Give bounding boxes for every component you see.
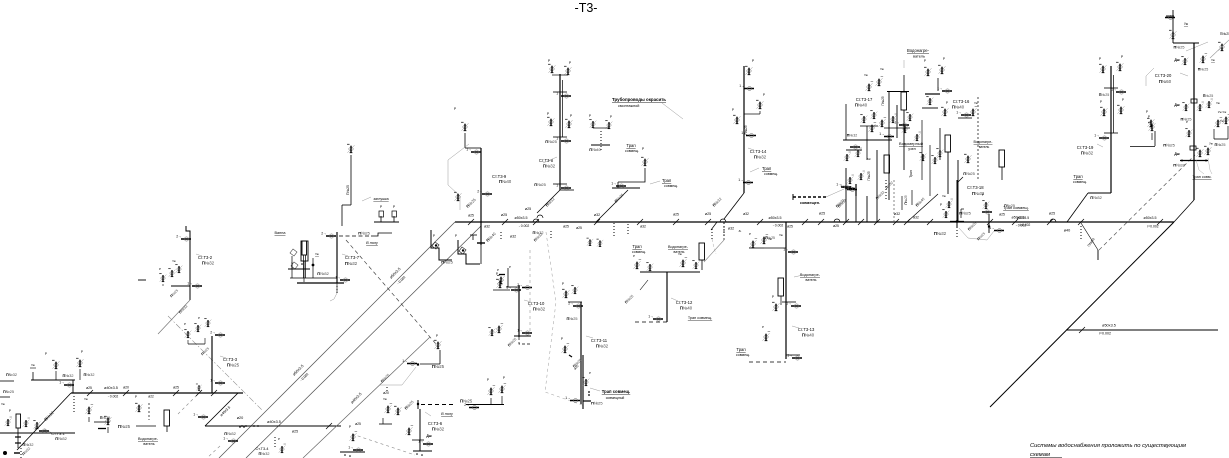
svg-text:ø25: ø25 xyxy=(173,386,179,390)
svg-text:1→: 1→ xyxy=(348,445,353,449)
svg-text:ø25: ø25 xyxy=(1049,212,1055,216)
title -T3- xyxy=(575,1,598,15)
branch left with valves xyxy=(30,350,95,412)
svg-text:Уж: Уж xyxy=(84,397,88,401)
wire step diagonal o20 xyxy=(205,393,243,426)
note pipes paint xyxy=(612,97,683,119)
svg-text:Трап: Трап xyxy=(909,170,913,178)
svg-text:совмещ.: совмещ. xyxy=(736,353,750,357)
svg-text:ø32: ø32 xyxy=(640,225,646,229)
pipe tick o25 at 536 xyxy=(525,207,539,225)
svg-text:P: P xyxy=(1122,98,1124,102)
svg-text:Ст.Т3-17: Ст.Т3-17 xyxy=(856,97,873,102)
svg-text:П№25: П№25 xyxy=(346,185,350,195)
riser with trap at 601 xyxy=(589,114,639,222)
valve pair at end of floor branch xyxy=(487,376,506,404)
svg-text:1→: 1→ xyxy=(223,436,228,440)
svg-text:P: P xyxy=(946,101,948,105)
water meter unit cluster xyxy=(836,48,1004,222)
trap grate mid xyxy=(711,184,857,254)
riser St.T3-20 xyxy=(1130,10,1229,222)
wire right diagonal drop xyxy=(990,222,1174,407)
svg-text:ø25: ø25 xyxy=(999,213,1005,217)
svg-text:P: P xyxy=(589,114,591,118)
svg-text:Ст.Т3-11: Ст.Т3-11 xyxy=(591,338,608,343)
svg-text:ø50x3.5: ø50x3.5 xyxy=(515,216,528,220)
fixture below start cluster xyxy=(493,265,532,290)
wire bottom-right branch o50x3.5 xyxy=(1066,324,1218,336)
svg-text:P: P xyxy=(562,282,564,286)
svg-text:a.: a. xyxy=(739,229,742,233)
below-line valves at 590 xyxy=(563,223,614,247)
svg-text:Мс: Мс xyxy=(867,157,871,161)
svg-text:П№25: П№25 xyxy=(534,182,546,187)
svg-text:П№32: П№32 xyxy=(432,427,445,432)
svg-text:P: P xyxy=(496,272,498,276)
svg-text:узел: узел xyxy=(908,147,915,151)
svg-text:П№32: П№32 xyxy=(532,231,543,235)
svg-text:Дш: Дш xyxy=(1174,152,1179,156)
svg-text:ø32: ø32 xyxy=(728,227,734,231)
svg-text:ø50x3.5: ø50x3.5 xyxy=(769,216,782,220)
svg-text:1→: 1→ xyxy=(335,275,340,279)
svg-text:ø40: ø40 xyxy=(1064,229,1071,233)
svg-text:Уж: Уж xyxy=(172,259,176,263)
svg-text:совмещ.: совмещ. xyxy=(664,184,678,188)
svg-text:ø50x3.5: ø50x3.5 xyxy=(1102,324,1116,328)
svg-text:1→: 1→ xyxy=(402,359,407,363)
riser St.T3-14 xyxy=(712,59,778,219)
svg-text:П№32: П№32 xyxy=(1090,195,1102,200)
svg-text:Уж: Уж xyxy=(1220,119,1224,123)
svg-text:P: P xyxy=(732,108,734,112)
svg-text:Ст.Т3-12: Ст.Т3-12 xyxy=(676,300,693,305)
svg-text:1→: 1→ xyxy=(418,439,423,443)
svg-text:Ванна: Ванна xyxy=(275,231,287,235)
svg-text:1→: 1→ xyxy=(565,396,570,400)
svg-text:Трап: Трап xyxy=(626,143,635,148)
svg-text:Трап: Трап xyxy=(762,166,771,171)
svg-text:Уж: Уж xyxy=(1211,58,1215,62)
svg-text:Ст.Т3-20: Ст.Т3-20 xyxy=(1155,73,1172,78)
svg-text:P: P xyxy=(763,93,765,97)
riser St.T3-10 xyxy=(488,231,545,347)
svg-text:Трап: Трап xyxy=(1073,174,1082,179)
svg-text:i=0.002: i=0.002 xyxy=(1020,223,1031,227)
svg-text:Уж: Уж xyxy=(31,363,35,367)
svg-text:Водонагре-: Водонагре- xyxy=(668,245,689,249)
svg-text:Водонагре-: Водонагре- xyxy=(974,140,994,144)
svg-text:P: P xyxy=(940,203,942,207)
riser St.T3-11 xyxy=(561,282,609,404)
svg-text:ø22: ø22 xyxy=(148,395,154,399)
svg-text:Ст.Т3-16: Ст.Т3-16 xyxy=(953,99,970,104)
svg-text:ø32: ø32 xyxy=(510,235,516,239)
bath fixture xyxy=(275,231,310,282)
svg-text:ø50x3.5: ø50x3.5 xyxy=(1017,216,1029,220)
fixture at 89 xyxy=(84,397,131,433)
svg-text:П№25: П№25 xyxy=(904,195,908,204)
svg-text:П№25: П№25 xyxy=(1214,143,1225,147)
svg-text:P: P xyxy=(487,378,489,382)
svg-text:- 0.002: - 0.002 xyxy=(108,395,119,399)
svg-text:П№25: П№25 xyxy=(765,236,775,240)
svg-text:Уж: Уж xyxy=(1209,142,1213,146)
svg-text:П№32: П№32 xyxy=(258,452,269,456)
svg-text:смонтажной: смонтажной xyxy=(618,104,639,108)
svg-text:П№25: П№25 xyxy=(1220,32,1229,36)
svg-text:П№40: П№40 xyxy=(855,103,868,108)
pipe tick o25 at 1050 xyxy=(1047,212,1056,226)
svg-text:ø25: ø25 xyxy=(705,212,711,216)
svg-text:совмещ.: совмещ. xyxy=(1073,180,1087,184)
svg-text:P: P xyxy=(436,334,438,338)
svg-text:P: P xyxy=(433,234,435,238)
svg-text:П№25: П№25 xyxy=(358,231,370,236)
riser St.T3-7 xyxy=(290,144,392,301)
pipe label o50x3.5 mid-left xyxy=(515,216,530,228)
wire bottom header o40x3.5 xyxy=(205,420,341,443)
svg-text:i=0.002: i=0.002 xyxy=(1099,332,1111,336)
water heater left xyxy=(135,395,170,446)
svg-text:Трап совмещ.: Трап совмещ. xyxy=(688,316,712,320)
svg-text:П№40: П№40 xyxy=(680,306,693,311)
svg-text:P: P xyxy=(1186,120,1188,124)
svg-text:П№32: П№32 xyxy=(345,261,358,266)
svg-text:П№32: П№32 xyxy=(224,431,236,436)
svg-text:Уж: Уж xyxy=(383,397,387,401)
svg-text:П№25: П№25 xyxy=(1198,68,1208,72)
svg-text:Водомерный: Водомерный xyxy=(899,141,923,146)
svg-text:Трубопроводы окрасить: Трубопроводы окрасить xyxy=(612,97,666,102)
wire low-left stub diagonal xyxy=(17,393,71,450)
svg-text:Водонагре-: Водонагре- xyxy=(907,48,930,53)
svg-text:Ст.Т3-8: Ст.Т3-8 xyxy=(539,158,554,163)
pipe label o50x3.5 right-end xyxy=(1144,216,1159,229)
wash fixtures pair xyxy=(374,205,399,222)
svg-text:Трап совмещ.: Трап совмещ. xyxy=(1003,205,1029,210)
svg-text:Дш: Дш xyxy=(1174,103,1179,107)
svg-text:Водонагре-: Водонагре- xyxy=(138,437,159,441)
svg-text:ø25: ø25 xyxy=(787,225,793,229)
svg-text:2→: 2→ xyxy=(176,234,181,238)
wire third diagonal xyxy=(193,337,430,458)
svg-text:ø25: ø25 xyxy=(86,386,92,390)
wire dash-dot boundary left xyxy=(168,316,262,410)
svg-text:совмещ.: совмещ. xyxy=(764,172,778,176)
svg-text:П№25: П№25 xyxy=(867,171,871,180)
svg-text:1→: 1→ xyxy=(741,131,746,135)
svg-text:ватель: ватель xyxy=(143,442,154,446)
svg-text:Уж: Уж xyxy=(880,67,884,71)
svg-text:совмещный: совмещный xyxy=(606,396,625,400)
svg-text:ø32: ø32 xyxy=(594,213,600,217)
svg-text:П№40: П№40 xyxy=(589,147,601,152)
svg-text:P: P xyxy=(184,322,186,326)
svg-text:Уж: Уж xyxy=(974,101,978,105)
svg-text:1→: 1→ xyxy=(210,378,215,382)
riser St.T3-19 xyxy=(1067,55,1156,222)
svg-text:ø20: ø20 xyxy=(383,391,389,395)
svg-text:1→: 1→ xyxy=(956,110,961,114)
pipe micro labels 1 xyxy=(468,212,1163,229)
svg-text:П№32: П№32 xyxy=(202,261,215,266)
svg-text:П№25: П№25 xyxy=(963,171,975,176)
svg-text:P: P xyxy=(772,295,774,299)
svg-text:P: P xyxy=(9,409,11,413)
st T3-6 lower cluster xyxy=(405,409,444,456)
svg-text:1→: 1→ xyxy=(59,380,64,384)
svg-text:В полу: В полу xyxy=(441,412,454,416)
svg-text:P: P xyxy=(455,234,457,238)
svg-text:Уж: Уж xyxy=(1,402,5,406)
svg-text:P: P xyxy=(81,350,83,354)
svg-text:П№25: П№25 xyxy=(227,363,240,368)
svg-text:П№25: П№25 xyxy=(441,260,453,265)
svg-text:совмещен.: совмещен. xyxy=(800,201,820,205)
riser with trap at 583 xyxy=(565,355,630,409)
svg-text:П№25: П№25 xyxy=(1099,93,1109,97)
note bottom right xyxy=(1030,443,1186,458)
svg-text:ø25: ø25 xyxy=(833,224,839,228)
svg-text:В полу: В полу xyxy=(366,241,379,245)
low-left header ticks xyxy=(86,386,217,399)
svg-text:P: P xyxy=(561,337,563,341)
svg-text:П№32: П№32 xyxy=(754,155,767,160)
svg-text:P: P xyxy=(1100,100,1102,104)
svg-text:Трап совмещ.: Трап совмещ. xyxy=(602,389,631,394)
svg-text:Ст.Т3-19: Ст.Т3-19 xyxy=(1077,145,1094,150)
svg-text:П№25: П№25 xyxy=(566,317,577,321)
svg-text:ø25: ø25 xyxy=(292,430,298,434)
svg-text:Дш: Дш xyxy=(1174,58,1179,62)
svg-text:ø25: ø25 xyxy=(525,207,531,211)
svg-text:ø25: ø25 xyxy=(576,226,582,230)
svg-text:P: P xyxy=(762,325,764,329)
svg-text:ø20: ø20 xyxy=(237,416,244,420)
valve pair above bottom header xyxy=(379,387,415,424)
svg-text:P: P xyxy=(633,254,635,258)
svg-text:1→: 1→ xyxy=(517,328,522,332)
svg-text:1→: 1→ xyxy=(894,120,899,124)
svg-text:P: P xyxy=(509,265,511,269)
svg-text:П№32: П№32 xyxy=(55,436,67,441)
svg-text:ø32: ø32 xyxy=(894,212,900,216)
lone dash xyxy=(138,279,146,281)
svg-text:П№40: П№40 xyxy=(952,105,965,110)
svg-text:Уж: Уж xyxy=(315,252,319,256)
svg-text:- 0.002: - 0.002 xyxy=(519,224,530,228)
svg-text:P: P xyxy=(159,267,161,271)
svg-text:P: P xyxy=(45,352,47,356)
svg-text:ø40x3.5: ø40x3.5 xyxy=(267,420,281,424)
svg-text:1→: 1→ xyxy=(783,247,788,251)
svg-text:Ст.Т3-4: Ст.Т3-4 xyxy=(256,447,269,451)
svg-text:ø25: ø25 xyxy=(468,214,474,218)
fixture 1-P25 mid xyxy=(380,334,445,385)
svg-text:ø40x3.5: ø40x3.5 xyxy=(104,386,118,390)
svg-text:П№25: П№25 xyxy=(591,401,603,406)
riser St.T3-3 xyxy=(184,316,240,396)
riser St.T3-18 below line xyxy=(907,180,994,241)
right edge fittings xyxy=(1210,32,1229,58)
left edge labels xyxy=(0,373,17,397)
pipe tick o25 at 505 xyxy=(501,213,508,225)
svg-text:1→: 1→ xyxy=(937,86,942,90)
riser St.T3-9 xyxy=(448,107,516,245)
svg-text:П№32: П№32 xyxy=(847,134,857,138)
svg-text:2→: 2→ xyxy=(477,189,482,193)
svg-text:P: P xyxy=(503,376,505,380)
svg-text:Уж: Уж xyxy=(864,73,868,77)
svg-text:2→: 2→ xyxy=(464,403,469,407)
svg-text:П№32: П№32 xyxy=(6,373,17,377)
svg-text:P: P xyxy=(924,59,926,63)
svg-text:1→: 1→ xyxy=(739,84,744,88)
gray room boundary xyxy=(545,232,585,406)
svg-text:ø25: ø25 xyxy=(819,212,825,216)
svg-text:П№40: П№40 xyxy=(802,333,815,338)
svg-text:- 0.002: - 0.002 xyxy=(773,224,784,228)
wire left diagonal o50x3.5 xyxy=(219,222,455,458)
drop with meter at 989 xyxy=(982,193,1015,233)
svg-text:совмещ.: совмещ. xyxy=(625,149,639,153)
riser St.T3-13 xyxy=(736,222,821,362)
svg-text:Уж: Уж xyxy=(779,233,783,237)
wire second diagonal o40x3.5 xyxy=(246,226,481,458)
svg-text:ø25: ø25 xyxy=(673,213,679,217)
svg-text:П№25: П№25 xyxy=(1163,143,1175,148)
wire dashed diagonal right xyxy=(1099,155,1195,250)
svg-text:Водонагре-: Водонагре- xyxy=(800,273,821,277)
svg-text:заглушка: заглушка xyxy=(373,197,388,201)
svg-text:П№25: П№25 xyxy=(118,424,131,429)
svg-text:ватель: ватель xyxy=(806,278,817,282)
svg-text:П№32: П№32 xyxy=(1081,151,1094,156)
wire drop to bottom branch xyxy=(1064,223,1098,260)
svg-text:P: P xyxy=(278,437,280,441)
svg-text:P: P xyxy=(610,115,612,119)
wire dashed stub bottom-center xyxy=(352,434,415,455)
below-line label o32 at 730 xyxy=(724,223,741,238)
svg-text:1→: 1→ xyxy=(648,314,653,318)
svg-text:Уж: Уж xyxy=(942,194,946,198)
svg-text:ø32: ø32 xyxy=(743,212,749,216)
svg-text:Трап: Трап xyxy=(632,244,641,249)
svg-text:ø50x3.5: ø50x3.5 xyxy=(1144,216,1157,220)
svg-text:П№32: П№32 xyxy=(934,231,947,236)
svg-text:Ст.Т3-13: Ст.Т3-13 xyxy=(798,327,815,332)
wire in-floor branch xyxy=(417,399,504,417)
svg-text:Уж: Уж xyxy=(678,252,682,256)
svg-text:ø20: ø20 xyxy=(123,386,129,390)
svg-text:П№32: П№32 xyxy=(533,307,546,312)
svg-text:1→: 1→ xyxy=(879,132,884,136)
svg-text:2→: 2→ xyxy=(321,231,326,235)
svg-text:1→: 1→ xyxy=(738,178,743,182)
fixture with trap at 645 xyxy=(611,147,678,188)
svg-text:П№25: П№25 xyxy=(881,96,885,105)
svg-text:P: P xyxy=(589,371,591,375)
svg-text:П№32: П№32 xyxy=(596,344,609,349)
svg-text:П№32: П№32 xyxy=(543,164,556,169)
svg-text:ватель: ватель xyxy=(979,145,990,149)
svg-text:Уж: Уж xyxy=(1216,101,1220,105)
svg-text:П№32: П№32 xyxy=(62,374,73,378)
svg-text:1→: 1→ xyxy=(611,181,616,185)
svg-text:П№50: П№50 xyxy=(1159,79,1172,84)
svg-text:Ст.Т3-2: Ст.Т3-2 xyxy=(198,255,213,260)
svg-text:P: P xyxy=(943,57,945,61)
riser St.T3-2 xyxy=(158,226,215,334)
svg-text:-Т3-: -Т3- xyxy=(575,1,598,15)
svg-text:Трап совм.: Трап совм. xyxy=(1192,175,1211,179)
pipe tick o32 at 896 xyxy=(893,212,900,225)
svg-text:P: P xyxy=(198,316,200,320)
svg-text:Ст.Т3-14: Ст.Т3-14 xyxy=(750,149,767,154)
svg-text:1→: 1→ xyxy=(836,182,841,186)
svg-text:Дш: Дш xyxy=(426,434,431,438)
svg-text:Ст.Т3-18: Ст.Т3-18 xyxy=(967,185,984,190)
svg-text:схемам: схемам xyxy=(1030,452,1050,458)
svg-text:П№25: П№25 xyxy=(3,390,14,394)
svg-text:ø32: ø32 xyxy=(484,225,490,229)
svg-text:Трап: Трап xyxy=(662,178,671,183)
below-line dots at 640 xyxy=(628,219,646,236)
pipe label o50x3.5 mid-right xyxy=(1012,216,1027,228)
svg-text:П№25: П№25 xyxy=(1173,46,1184,50)
svg-text:P: P xyxy=(1146,110,1148,114)
svg-text:P: P xyxy=(349,425,351,429)
svg-text:P: P xyxy=(135,395,137,399)
svg-text:Системы водоснабжения проложит: Системы водоснабжения проложить по сущес… xyxy=(1030,443,1186,449)
wire low-left header o40x3.5 xyxy=(71,386,243,399)
svg-text:P: P xyxy=(982,193,984,197)
pipe tick o25 at 708 xyxy=(705,212,711,225)
svg-text:Ст.Т3-6: Ст.Т3-6 xyxy=(428,421,443,426)
svg-text:2→: 2→ xyxy=(517,283,522,287)
svg-text:П№40: П№40 xyxy=(499,179,512,184)
svg-text:П№32: П№32 xyxy=(83,373,94,377)
svg-text:ø25: ø25 xyxy=(563,225,569,229)
svg-text:П№25: П№25 xyxy=(432,364,445,369)
pipe tick o32 at 597 xyxy=(594,213,600,225)
riser St.T3-8 xyxy=(534,59,574,218)
svg-text:П№25: П№25 xyxy=(1203,94,1213,98)
wire dashed stub bottom-left xyxy=(178,395,220,458)
svg-text:Трап: Трап xyxy=(736,347,745,352)
svg-text:ø25: ø25 xyxy=(501,213,507,217)
svg-text:1→: 1→ xyxy=(34,426,39,430)
wire dashed diagonal to floor xyxy=(346,240,436,344)
svg-text:P: P xyxy=(749,232,751,236)
bottom trap fixtures xyxy=(256,422,365,457)
wire main header T3 o50x3.5 xyxy=(455,221,1174,223)
svg-text:ватель: ватель xyxy=(913,55,925,59)
riser St.T3-12 xyxy=(624,222,724,322)
stub St.T3-1 xyxy=(0,402,75,458)
svg-text:1→: 1→ xyxy=(1094,133,1099,137)
pipe tick o25 at 821 xyxy=(818,212,825,226)
svg-text:ø25: ø25 xyxy=(355,422,361,426)
cluster below line start xyxy=(431,230,551,265)
trap cluster at 1015 xyxy=(982,205,1031,227)
svg-text:1→: 1→ xyxy=(187,281,192,285)
svg-text:i=0.002: i=0.002 xyxy=(1147,225,1158,229)
svg-text:П№32: П№32 xyxy=(317,271,329,276)
svg-text:Уж Уж: Уж Уж xyxy=(1218,110,1226,114)
svg-text:1→: 1→ xyxy=(193,412,198,416)
